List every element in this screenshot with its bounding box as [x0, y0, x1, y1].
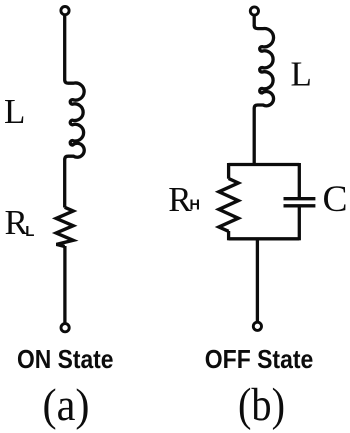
- wire (a) top: [63, 15, 66, 81]
- resistor RH zigzag (b): [219, 179, 238, 232]
- svg-text:OFF State: OFF State: [205, 344, 313, 374]
- wire left branch lower: [227, 231, 230, 240]
- wire right branch lower: [298, 207, 301, 240]
- resistor RL zigzag (a): [56, 207, 73, 246]
- wire (b) top: [253, 15, 256, 26]
- svg-text:L: L: [4, 92, 25, 131]
- svg-text:ON State: ON State: [17, 344, 114, 374]
- terminal bottom (a): [61, 324, 69, 332]
- node junction top of box: [229, 163, 300, 166]
- inductor L1 coil (a): [65, 80, 85, 159]
- wire bottom of box: [229, 237, 300, 240]
- capacitor C bottom plate: [284, 204, 316, 207]
- wire left branch upper: [227, 163, 230, 179]
- terminal bottom (b): [253, 322, 261, 330]
- wire (a) bottom: [63, 246, 66, 323]
- svg-text:C: C: [323, 179, 348, 220]
- inductor L2 coil (b): [254, 25, 273, 108]
- svg-text:L: L: [291, 54, 312, 93]
- capacitor C top plate: [284, 197, 316, 200]
- wire right branch upper: [298, 163, 301, 197]
- terminal top (a): [61, 7, 69, 15]
- terminal top (b): [250, 7, 258, 15]
- wire (b) coil to node: [253, 108, 256, 166]
- wire (b) bottom: [256, 239, 259, 322]
- svg-text:(a): (a): [43, 380, 90, 430]
- svg-text:L: L: [25, 223, 34, 240]
- wire (a) middle: [63, 159, 66, 208]
- svg-text:H: H: [190, 198, 200, 214]
- svg-text:(b): (b): [238, 380, 285, 431]
